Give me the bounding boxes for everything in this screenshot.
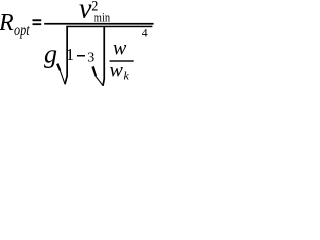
inner fraction bar — [110, 60, 134, 61]
main fraction bar — [44, 23, 153, 25]
svg-text:3: 3 — [87, 51, 94, 66]
equals sign — [33, 19, 42, 21]
svg-text:g: g — [44, 40, 57, 69]
svg-text:1: 1 — [66, 45, 75, 64]
minus sign — [77, 55, 85, 57]
svg-text:4: 4 — [142, 27, 148, 40]
radical overbar (shared) — [66, 26, 152, 28]
svg-text:w: w — [110, 60, 124, 82]
outer radical glyph — [57, 64, 60, 71]
svg-text:w: w — [113, 38, 127, 60]
svg-text:opt: opt — [14, 22, 30, 39]
svg-text:k: k — [124, 69, 130, 83]
svg-text:R: R — [0, 10, 14, 36]
svg-text:min: min — [94, 9, 111, 24]
inner radical glyph — [93, 66, 96, 76]
svg-text:v: v — [79, 0, 92, 24]
